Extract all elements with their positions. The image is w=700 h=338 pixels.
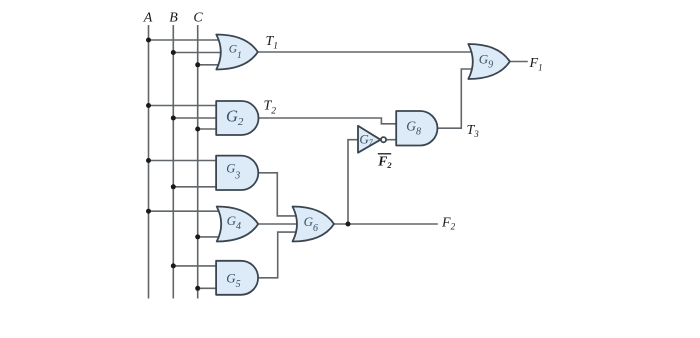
wire G7 out to G8	[386, 139, 397, 141]
wire F1 output	[510, 61, 528, 63]
node B-G2	[171, 116, 176, 121]
node B-G1	[171, 50, 176, 55]
node C-G4	[195, 234, 200, 239]
wire A to G1	[149, 39, 227, 41]
wire G4 out to G6	[259, 223, 302, 225]
and-gate G8	[396, 111, 437, 146]
wire input line B	[172, 25, 174, 299]
node B-G5	[171, 263, 176, 268]
and-gate G3	[216, 156, 258, 190]
node A-G1	[146, 38, 151, 43]
node A-G2	[146, 103, 151, 108]
wire C to G4	[198, 236, 226, 238]
wire B to G3	[173, 186, 217, 188]
node A-G3	[146, 158, 151, 163]
wire B to G5	[173, 265, 217, 267]
wire A to G4	[149, 210, 227, 212]
inverter G7	[358, 126, 381, 153]
and-gate G5	[216, 261, 258, 295]
wire A to G3	[149, 160, 218, 162]
node C-G2	[195, 127, 200, 132]
wire F2 node to G7	[348, 140, 358, 224]
and-gate G2	[216, 101, 258, 135]
wire C to G1	[198, 64, 226, 66]
inverter bubble G7	[381, 137, 386, 142]
node C-G5	[195, 286, 200, 291]
or-gate G9	[468, 44, 510, 79]
wire T1 G1 to G9	[258, 51, 476, 53]
overline of F2-bar	[378, 153, 391, 155]
wire B to G2	[173, 117, 217, 119]
node B-G3	[171, 184, 176, 189]
wire input line C	[197, 25, 199, 299]
node C-G1	[195, 62, 200, 67]
wire G3 out to G6	[258, 173, 300, 216]
wire C to G5	[198, 287, 217, 289]
svg-text:A: A	[143, 11, 153, 26]
wire B to G1	[173, 52, 226, 54]
or-gate G6	[293, 207, 335, 242]
wire input line A	[148, 25, 150, 299]
wire F2 output	[334, 223, 438, 225]
wire G5 out to G6	[258, 232, 300, 278]
wire T3 G8 to G9	[437, 69, 476, 128]
node A-G4	[146, 209, 151, 214]
svg-text:B: B	[169, 11, 178, 26]
wire A to G2	[149, 105, 218, 107]
or-gate G4	[217, 207, 259, 242]
or-gate G1	[216, 35, 257, 70]
wire T2 G2 to G8	[259, 118, 398, 124]
wire C to G2	[198, 128, 217, 130]
node F2 branch	[346, 222, 351, 227]
svg-text:C: C	[193, 11, 203, 26]
